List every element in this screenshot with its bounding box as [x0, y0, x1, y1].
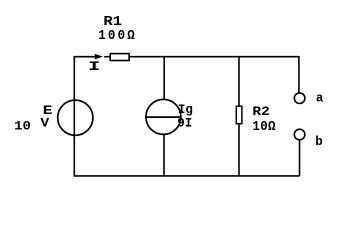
wire left vertical [73, 56, 75, 176]
current source Ig [146, 99, 181, 134]
terminal b [294, 129, 305, 140]
resistor R1 [110, 54, 129, 61]
wire R2 branch top [238, 57, 240, 107]
wire right vertical to terminal a [298, 56, 300, 93]
terminal a [294, 93, 305, 104]
svg-text:I: I [88, 60, 100, 74]
wire terminal b to bottom [299, 140, 301, 176]
svg-text:b: b [315, 135, 323, 149]
wire R2 branch bottom [238, 124, 240, 176]
svg-text:10Ω: 10Ω [252, 118, 275, 134]
svg-text:9I: 9I [177, 117, 192, 131]
wire arrow-to-R1 [104, 56, 110, 58]
resistor R2 [236, 106, 242, 124]
voltage source E [58, 100, 93, 135]
wire bottom [74, 175, 300, 177]
wire Ig branch top [163, 57, 165, 100]
current arrow I [95, 54, 103, 59]
svg-text:V: V [41, 117, 51, 131]
svg-text:100Ω: 100Ω [98, 27, 137, 43]
svg-text:Ig: Ig [178, 103, 193, 117]
wire top right segment [129, 56, 299, 58]
current source Ig bar [146, 116, 181, 118]
wire top left segment [74, 56, 95, 58]
wire Ig branch bottom [163, 134, 165, 176]
svg-text:a: a [316, 91, 324, 105]
svg-text:10: 10 [14, 119, 31, 133]
